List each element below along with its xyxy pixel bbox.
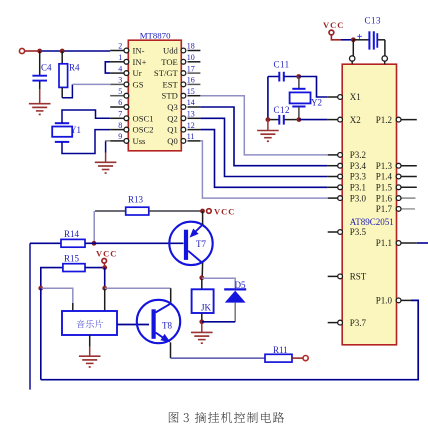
svg-text:P1.7: P1.7 xyxy=(376,204,393,214)
wire Q2(13) to P3.3 xyxy=(200,118,327,176)
wire Y2top to X1 xyxy=(299,77,328,98)
node Y2 top junction xyxy=(296,74,301,79)
wire R4 to GS jog xyxy=(62,84,72,97)
svg-text:R14: R14 xyxy=(64,229,80,239)
capacitor C13 xyxy=(353,31,385,49)
svg-text:10: 10 xyxy=(187,53,195,62)
wire R11 to terminal xyxy=(292,357,303,359)
svg-text:Udd: Udd xyxy=(163,46,179,56)
terminal J1 (input) xyxy=(19,48,24,53)
svg-text:C12: C12 xyxy=(274,105,291,115)
wire T7 collector down xyxy=(201,263,203,278)
svg-text:17: 17 xyxy=(187,64,195,73)
capacitor C12 xyxy=(268,115,299,125)
AT89C2051 pin X1 xyxy=(328,92,361,102)
svg-text:P3.4: P3.4 xyxy=(350,161,367,171)
svg-text:C11: C11 xyxy=(274,60,290,70)
svg-text:IN+: IN+ xyxy=(133,57,147,67)
svg-text:MT8870: MT8870 xyxy=(140,30,171,40)
svg-text:VCC: VCC xyxy=(323,20,344,30)
svg-text:Ur: Ur xyxy=(133,68,142,78)
MT8870 pin 10 TOE xyxy=(161,53,200,67)
power VCC low label xyxy=(96,249,117,259)
svg-text:6: 6 xyxy=(118,98,122,107)
svg-text:GS: GS xyxy=(133,79,144,89)
wire R14 to T7 base xyxy=(85,242,184,244)
svg-text:Q2: Q2 xyxy=(167,113,178,123)
MT8870 pin 15 STD xyxy=(162,87,201,101)
svg-text:VCC: VCC xyxy=(96,249,117,259)
resistor R14 xyxy=(61,239,85,247)
wire P1.0 to bottom rail xyxy=(41,300,418,379)
svg-text:T8: T8 xyxy=(162,321,172,331)
wire music bottom pin xyxy=(89,335,91,347)
node C12 left junction xyxy=(266,117,271,122)
crystal Y2 label xyxy=(311,98,322,108)
resistor R15 label xyxy=(64,254,80,264)
music chip box xyxy=(62,311,117,335)
wire music to ground (red) xyxy=(89,347,91,356)
resistor R11 label xyxy=(273,345,288,355)
svg-text:STD: STD xyxy=(162,91,178,101)
MT8870 pin 2 IN- xyxy=(110,42,144,56)
svg-text:RST: RST xyxy=(350,272,367,282)
MT8870 pin 9 Uss xyxy=(110,132,146,146)
node music right junction xyxy=(102,286,107,291)
svg-text:X1: X1 xyxy=(350,92,361,102)
wire T8 to R11 xyxy=(171,357,266,359)
svg-text:AT89C2051: AT89C2051 xyxy=(350,217,394,227)
resistor R13 label xyxy=(128,195,144,205)
wire OSC1 to Y1 top xyxy=(62,110,110,123)
wire to music pin1 xyxy=(41,288,73,311)
svg-text:P3.3: P3.3 xyxy=(350,172,367,182)
wire D5 to JK bottom xyxy=(202,321,235,323)
svg-text:JK: JK xyxy=(201,303,212,313)
svg-text:P1.4: P1.4 xyxy=(376,172,393,182)
AT89C2051 pin P3.4 xyxy=(328,161,367,171)
wire Q0(11) to P3.0 xyxy=(200,141,327,198)
wire C11-C12 left leg xyxy=(267,77,269,120)
AT89C2051 pin P1.1 xyxy=(376,238,417,248)
wire D5 bottom xyxy=(234,303,236,322)
wire VCC node down xyxy=(104,268,106,289)
wire Uss to ground xyxy=(106,141,111,162)
svg-text:TOE: TOE xyxy=(161,57,178,67)
AT89C2051 pin P3.2 xyxy=(328,150,366,160)
svg-text:11: 11 xyxy=(187,132,195,141)
AT89C2051 pin P3.0 xyxy=(328,193,367,203)
caption figure title xyxy=(169,412,284,423)
wire T7 emitter to VCC xyxy=(202,211,204,225)
svg-text:Y2: Y2 xyxy=(311,98,322,108)
svg-text:T7: T7 xyxy=(196,239,206,249)
AT89C2051 top pin VCC-left xyxy=(350,56,355,64)
MT8870 pin 13 Q2 xyxy=(167,110,200,124)
terminal J2 (R11) xyxy=(303,356,308,361)
IC U2 AT89C2051 title xyxy=(350,217,394,227)
wire R14 left corner xyxy=(30,242,61,244)
wire JK bottom pin xyxy=(201,313,203,322)
svg-text:R4: R4 xyxy=(69,63,80,73)
capacitor C11 xyxy=(268,72,299,82)
svg-text:12: 12 xyxy=(187,121,195,130)
svg-text:5: 5 xyxy=(118,87,122,96)
relay JK xyxy=(192,289,214,313)
MT8870 pin 8 OSC2 xyxy=(110,121,153,135)
svg-text:9: 9 xyxy=(118,132,122,141)
svg-text:VCC: VCC xyxy=(214,207,235,217)
wire J1 to C4 (red segment) xyxy=(25,50,39,52)
wire STD(15) to P3.2 xyxy=(200,96,327,155)
svg-text:P1.3: P1.3 xyxy=(376,161,393,171)
svg-text:Uss: Uss xyxy=(133,136,147,146)
svg-text:EST: EST xyxy=(163,79,179,89)
MT8870 pin 18 Udd xyxy=(163,42,200,56)
resistor R13 xyxy=(126,207,149,215)
svg-text:OSC2: OSC2 xyxy=(133,125,154,135)
music chip label xyxy=(77,320,104,328)
resistor R4 xyxy=(59,51,68,98)
resistor R4 label xyxy=(69,63,80,73)
svg-text:3: 3 xyxy=(118,76,122,85)
MT8870 pin 1 IN+ xyxy=(110,53,146,67)
MT8870 pin 16 EST xyxy=(163,76,201,90)
capacitor C4 xyxy=(32,51,47,89)
svg-text:16: 16 xyxy=(187,76,195,85)
wire junction to chip pin xyxy=(352,40,354,56)
wire JK to ground (red) xyxy=(201,322,203,333)
svg-text:2: 2 xyxy=(118,42,122,51)
wire R13 drop xyxy=(93,211,95,243)
wire R13 to VCC node xyxy=(149,210,203,212)
svg-text:P3.0: P3.0 xyxy=(350,193,367,203)
wire VCC low stem xyxy=(103,263,105,267)
MT8870 pin 3 GS xyxy=(110,76,144,90)
IC U2 AT89C2051 body xyxy=(342,64,396,345)
wire P1.1 out xyxy=(417,242,428,244)
svg-text:P1.0: P1.0 xyxy=(376,296,393,306)
svg-text:P3.7: P3.7 xyxy=(350,318,367,328)
svg-text:R15: R15 xyxy=(64,254,80,264)
svg-text:7: 7 xyxy=(118,110,122,119)
transistor T7 xyxy=(169,222,212,265)
node R15/VCC junction xyxy=(102,265,107,270)
AT89C2051 pin P1.0 xyxy=(376,296,411,306)
wire IN+ to Ur link xyxy=(105,62,110,73)
MT8870 pin 17 ST/GT xyxy=(154,64,200,78)
crystal Y2 xyxy=(290,77,311,120)
wire jog to MT8870 GS xyxy=(72,83,110,85)
diode D5 label xyxy=(235,280,246,290)
wire C4 to ground (red) xyxy=(39,89,41,104)
node JK bottom junction xyxy=(199,319,204,324)
svg-text:OSC1: OSC1 xyxy=(133,113,154,123)
MT8870 pin 6 NC xyxy=(110,98,129,109)
power VCC mid terminal xyxy=(207,209,212,214)
node R4 top junction xyxy=(60,49,65,54)
svg-text:IN-: IN- xyxy=(133,46,145,56)
ground G5 (JK) xyxy=(191,332,213,344)
wire left rail down xyxy=(29,243,31,389)
wire VCC rail to chip xyxy=(341,39,353,41)
IC U1 MT8870 body xyxy=(128,40,181,151)
AT89C2051 pin P3.7 xyxy=(328,318,367,328)
crystal Y1 xyxy=(52,123,72,142)
svg-text:+: + xyxy=(357,32,363,43)
svg-text:P1.1: P1.1 xyxy=(376,238,392,248)
svg-text:8: 8 xyxy=(118,121,122,130)
node T7 collector junction xyxy=(199,275,204,280)
capacitor C13 plus xyxy=(357,32,363,43)
svg-text:18: 18 xyxy=(187,42,195,51)
svg-text:15: 15 xyxy=(187,87,195,96)
AT89C2051 pin X2 xyxy=(328,115,361,125)
capacitor C13 label xyxy=(365,16,382,26)
svg-text:ST/GT: ST/GT xyxy=(154,68,179,78)
svg-text:X2: X2 xyxy=(350,115,361,125)
ground G2 (Uss) xyxy=(95,162,117,174)
svg-text:P1.5: P1.5 xyxy=(376,183,393,193)
wire C12 to X2 xyxy=(299,119,328,121)
wire R13 left xyxy=(95,210,126,212)
ground G4 (music) xyxy=(79,356,101,368)
wire music drop to rail xyxy=(40,288,42,380)
svg-text:Q1: Q1 xyxy=(167,125,178,135)
ground G1 (C4) xyxy=(29,104,51,116)
wire C4 to MT8870 IN- xyxy=(39,50,111,52)
node R13/R14 junction xyxy=(92,241,97,246)
svg-text:C4: C4 xyxy=(41,63,52,73)
ground G3 (osc) xyxy=(257,131,279,143)
svg-text:14: 14 xyxy=(187,98,195,107)
wire to ground G3 (red) xyxy=(267,120,269,131)
MT8870 pin 5 NC xyxy=(110,87,129,98)
MT8870 pin 4 Ur xyxy=(110,64,142,78)
wire Q1(12) to P3.1 xyxy=(200,130,327,188)
resistor R11 xyxy=(265,354,292,362)
resistor R14 label xyxy=(64,229,80,239)
wire R15 right xyxy=(85,267,105,269)
svg-text:P3.2: P3.2 xyxy=(350,150,366,160)
power VCC low terminal xyxy=(102,259,107,264)
svg-text:R13: R13 xyxy=(128,195,144,205)
svg-text:P3.1: P3.1 xyxy=(350,183,366,193)
wire music to T8 base xyxy=(117,324,149,326)
wire T8 emitter down xyxy=(170,342,172,358)
resistor R15 xyxy=(63,264,85,272)
AT89C2051 pin P1.2 xyxy=(376,115,417,125)
svg-text:4: 4 xyxy=(118,64,122,73)
svg-text:P1.2: P1.2 xyxy=(376,115,392,125)
AT89C2051 pin P3.1 xyxy=(328,183,366,193)
AT89C2051 pin P1.5 xyxy=(376,183,417,193)
svg-text:C13: C13 xyxy=(365,16,382,26)
MT8870 pin 7 OSC1 xyxy=(110,110,153,124)
AT89C2051 pin P3.3 xyxy=(328,172,367,182)
node VCC-C13 junction xyxy=(351,37,356,42)
svg-text:13: 13 xyxy=(187,110,195,119)
AT89C2051 pin P1.4 xyxy=(376,172,417,182)
capacitor C11 label xyxy=(274,60,290,70)
AT89C2051 pin P1.6 xyxy=(376,193,416,203)
svg-text:P1.6: P1.6 xyxy=(376,193,393,203)
IC U1 MT8870 title xyxy=(140,30,171,40)
MT8870 pin 14 Q3 xyxy=(167,98,200,112)
node X2 junction xyxy=(297,117,302,122)
transistor T7 label xyxy=(196,239,206,249)
wire junction to T8 collector xyxy=(105,288,171,304)
wire to music pin2 xyxy=(104,288,106,311)
wire OSC2 to Y1 bottom xyxy=(62,130,110,154)
AT89C2051 pin RST xyxy=(328,272,367,282)
AT89C2051 top pin VCC-right xyxy=(382,56,387,64)
MT8870 pin 11 Q0 xyxy=(167,132,200,146)
transistor T8 label xyxy=(162,321,172,331)
power VCC mid label xyxy=(214,207,235,217)
svg-text:1: 1 xyxy=(118,53,122,62)
transistor T8 xyxy=(137,300,180,343)
wire VCC to rail (red) xyxy=(331,35,341,40)
node music left junction xyxy=(38,286,43,291)
power VCC top terminal xyxy=(329,30,334,35)
wire junction to JK xyxy=(201,278,203,290)
wire Q3(14) to P3.4 xyxy=(200,107,327,166)
crystal Y1 label xyxy=(70,125,81,135)
svg-text:P3.5: P3.5 xyxy=(350,227,367,237)
wire junction to D5 top xyxy=(202,278,235,288)
AT89C2051 pin P3.5 xyxy=(328,227,367,237)
svg-text:Q3: Q3 xyxy=(167,102,178,112)
svg-text:Q0: Q0 xyxy=(167,136,178,146)
capacitor C4 label xyxy=(41,63,52,73)
node VCC mid junction xyxy=(200,209,205,214)
MT8870 pin 12 Q1 xyxy=(167,121,200,135)
power VCC top label xyxy=(323,20,344,30)
AT89C2051 pin P1.3 xyxy=(376,161,417,171)
node C4 top junction xyxy=(37,49,42,54)
wire C13 to chip pin xyxy=(384,40,386,56)
AT89C2051 pin P1.7 xyxy=(376,204,415,214)
diode D5 xyxy=(224,289,246,302)
wire R15 left + drop xyxy=(41,268,63,289)
capacitor C12 label xyxy=(274,105,291,115)
relay JK label xyxy=(201,303,212,313)
